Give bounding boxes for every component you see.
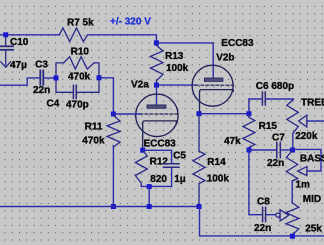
resistor R11 bbox=[107, 116, 120, 148]
svg-text:470k: 470k bbox=[82, 136, 105, 147]
node bus junction 2 bbox=[147, 204, 152, 209]
node V2a grid junction bbox=[111, 112, 116, 117]
potentiometer BASS 1m bbox=[286, 149, 321, 181]
node C7/BASS junction left bbox=[247, 148, 252, 153]
resistor R14 bbox=[193, 116, 205, 204]
wire top rail left bbox=[0, 34, 60, 36]
node tone stack top junction bbox=[246, 111, 251, 116]
resistor R13 bbox=[150, 45, 163, 82]
svg-text:470p: 470p bbox=[66, 100, 89, 111]
wire R11 to bus bbox=[112, 146, 114, 206]
svg-text:R13: R13 bbox=[165, 51, 184, 62]
svg-text:ECC83: ECC83 bbox=[144, 138, 177, 149]
wire cathode bottom node bbox=[141, 185, 171, 187]
capacitor C4 bbox=[56, 81, 99, 93]
node V2a cathode junction bbox=[140, 148, 145, 153]
svg-text:TREB: TREB bbox=[301, 97, 324, 108]
svg-text:R10: R10 bbox=[71, 46, 90, 57]
svg-text:1m: 1m bbox=[295, 180, 310, 191]
triode V2a bbox=[136, 94, 179, 148]
svg-text:V2a: V2a bbox=[131, 80, 149, 91]
svg-text:22n: 22n bbox=[267, 158, 284, 169]
resistor R15 47k bbox=[243, 114, 255, 148]
potentiometer MID 25k bbox=[280, 203, 299, 235]
node V2a plate / V2b grid junction bbox=[154, 83, 159, 88]
capacitor C3 bbox=[40, 71, 43, 85]
wire to bus bbox=[148, 186, 150, 206]
svg-text:22n: 22n bbox=[33, 85, 50, 96]
wire BASS to MID bbox=[291, 181, 293, 203]
svg-text:C6 680p: C6 680p bbox=[256, 81, 294, 92]
svg-text:100k: 100k bbox=[166, 63, 189, 74]
wire top rail right bbox=[89, 35, 157, 43]
svg-text:MID: MID bbox=[303, 194, 321, 205]
capacitor C10 bbox=[0, 37, 13, 67]
svg-text:470k: 470k bbox=[68, 72, 91, 83]
resistor R10 bbox=[56, 57, 99, 76]
node BASS top junction bbox=[290, 148, 295, 153]
svg-text:C8: C8 bbox=[257, 196, 270, 207]
svg-text:V2b: V2b bbox=[216, 52, 234, 63]
wire V2b grid bbox=[157, 84, 197, 86]
svg-text:BASS: BASS bbox=[300, 153, 324, 164]
node R11 bus junction bbox=[111, 204, 116, 209]
capacitor C6 bbox=[249, 99, 294, 111]
node C3/R10/C4 junction bbox=[54, 76, 59, 81]
node bottom R12/C5 junction bbox=[147, 184, 152, 189]
svg-text:R14: R14 bbox=[207, 157, 226, 168]
wire input lower bbox=[0, 78, 39, 85]
node MID bottom junction bbox=[290, 234, 295, 239]
node R14 bus junction bbox=[197, 204, 202, 209]
ground bus wire bbox=[0, 206, 200, 208]
wire bus drop to bottom rail bbox=[200, 207, 324, 236]
triode V2b bbox=[192, 65, 233, 111]
svg-text:C7: C7 bbox=[272, 133, 285, 144]
node +320V / R13 top junction bbox=[154, 40, 159, 45]
svg-text:22n: 22n bbox=[254, 223, 271, 234]
wire C3 to node bbox=[44, 77, 56, 79]
svg-text:R7 5k: R7 5k bbox=[67, 17, 94, 28]
svg-text:ECC83: ECC83 bbox=[221, 38, 254, 49]
capacitor C5 bbox=[145, 150, 172, 186]
capacitor C8 bbox=[249, 150, 276, 215]
svg-text:R11: R11 bbox=[85, 122, 103, 133]
node R10/C4 right junction bbox=[97, 75, 102, 80]
potentiometer TREB 220k bbox=[287, 99, 324, 148]
svg-text:R12: R12 bbox=[150, 156, 169, 167]
svg-text:C5: C5 bbox=[173, 150, 186, 161]
svg-text:100k: 100k bbox=[207, 173, 230, 184]
svg-text:820: 820 bbox=[150, 174, 167, 185]
wire cathode to tone stack bbox=[199, 113, 249, 115]
wire to V2b plate bbox=[156, 43, 213, 78]
svg-text:R15: R15 bbox=[259, 121, 278, 132]
svg-text:C4: C4 bbox=[47, 99, 60, 110]
capacitor C7 bbox=[249, 149, 293, 151]
svg-text:220k: 220k bbox=[295, 131, 318, 142]
wire to V2a grid node bbox=[99, 78, 113, 112]
resistor R12 bbox=[135, 150, 147, 186]
wire V2a grid bbox=[113, 113, 140, 115]
svg-text:+/- 320 V: +/- 320 V bbox=[110, 16, 151, 27]
node V2b cathode junction bbox=[197, 111, 202, 116]
svg-text:25k: 25k bbox=[305, 224, 322, 235]
svg-text:47k: 47k bbox=[224, 136, 241, 147]
svg-text:C10: C10 bbox=[10, 37, 29, 48]
node input top junction bbox=[3, 32, 8, 37]
svg-text:C3: C3 bbox=[35, 59, 48, 70]
svg-text:47µ: 47µ bbox=[10, 60, 27, 71]
svg-text:1µ: 1µ bbox=[174, 174, 186, 185]
resistor R7 bbox=[59, 28, 87, 42]
wire V2a plate lead bbox=[156, 87, 158, 105]
